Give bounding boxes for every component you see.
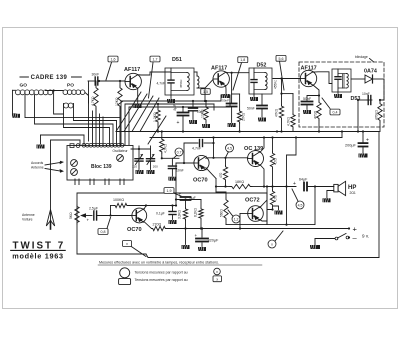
resistor 8,2K ohm bbox=[200, 200, 202, 209]
measure box 1,8 bbox=[238, 57, 248, 63]
bloc screw 1 bbox=[71, 160, 78, 167]
coupling coil bbox=[64, 103, 74, 108]
supply rail bbox=[150, 137, 342, 139]
measure box 1,7 bbox=[150, 56, 160, 62]
svg-text:4,7Ω: 4,7Ω bbox=[274, 158, 278, 165]
trimmer capacitor 200 bbox=[150, 146, 152, 158]
IF transformer D51 bbox=[165, 68, 194, 95]
cadre 139 label bbox=[20, 76, 28, 78]
coil PO bbox=[63, 90, 85, 95]
T7 collector diagonal bbox=[260, 187, 267, 208]
transistor T5 OC70 driver bbox=[194, 155, 209, 170]
wire supply to output node bbox=[287, 138, 297, 187]
svg-text:30nF: 30nF bbox=[92, 72, 100, 76]
wire driver base feed bbox=[175, 163, 177, 206]
IF transformer D52 bbox=[249, 68, 272, 94]
svg-text:1,2KΩ: 1,2KΩ bbox=[153, 112, 157, 122]
shield dashed box blindage bbox=[299, 62, 384, 127]
svg-text:modèle 1963: modèle 1963 bbox=[12, 251, 64, 260]
svg-text:12KΩ: 12KΩ bbox=[115, 97, 119, 106]
wire AGC to T2 base bbox=[204, 88, 206, 101]
legend circle symbol bbox=[120, 268, 130, 278]
capacitor 0,1uF IF decoupling bbox=[231, 73, 233, 103]
wire ground to bloc bbox=[41, 134, 85, 136]
svg-text:200μF: 200μF bbox=[345, 144, 357, 148]
svg-text:64μF: 64μF bbox=[299, 178, 308, 182]
svg-text:Tensions mesurées par rapport: Tensions mesurées par rapport au bbox=[135, 278, 188, 282]
svg-text:blindage: blindage bbox=[355, 55, 368, 59]
wire bundle diagonal 4 bbox=[140, 98, 159, 132]
svg-text:10KΩ: 10KΩ bbox=[201, 109, 205, 118]
wire driver emitter vertical bbox=[215, 179, 217, 193]
svg-text:Antenne: Antenne bbox=[22, 213, 35, 217]
wire 18K left bbox=[216, 186, 230, 188]
svg-text:TWIST 7: TWIST 7 bbox=[13, 240, 66, 251]
bus wire b bbox=[125, 104, 214, 145]
svg-text:4,7KΩ: 4,7KΩ bbox=[287, 116, 291, 126]
bloc screw 2 bbox=[71, 169, 78, 176]
svg-text:OC72: OC72 bbox=[245, 198, 260, 204]
ground below D53 bbox=[337, 92, 339, 94]
measure circle 1,2 bbox=[232, 215, 240, 223]
measure circle 4,5 output bbox=[296, 201, 304, 209]
T7 base wire bbox=[240, 213, 248, 215]
resistor 470 ohm emitter bbox=[318, 96, 320, 102]
capacitor 320uF bbox=[201, 229, 203, 238]
T7 emitter path bbox=[260, 210, 273, 222]
capacitor 50nF emitter bbox=[307, 96, 319, 101]
wire cap to resistor bbox=[232, 93, 240, 95]
svg-text:50nF: 50nF bbox=[222, 99, 229, 103]
T6 emitter down bbox=[260, 165, 264, 187]
car antenna arrow bbox=[46, 210, 54, 227]
measure circle x bbox=[268, 240, 276, 248]
switch bbox=[315, 238, 335, 240]
svg-text:+: + bbox=[195, 233, 198, 238]
ground output emitter bbox=[273, 206, 279, 211]
wire D52 to T3 base bbox=[273, 78, 300, 80]
T3 emitter node bbox=[313, 85, 319, 96]
T1 collector wire to D51 bbox=[138, 72, 171, 75]
wire cadre bus 1 bbox=[25, 95, 120, 145]
svg-text:320μF: 320μF bbox=[208, 239, 220, 243]
arrow to screw 2 bbox=[45, 169, 60, 172]
svg-text:Accords: Accords bbox=[31, 161, 44, 165]
svg-text:2,5μF: 2,5μF bbox=[89, 207, 98, 211]
resistor 470 ohm bias bbox=[225, 158, 227, 166]
resistor 560 ohm bbox=[224, 198, 228, 220]
svg-text:4,7KΩ: 4,7KΩ bbox=[91, 96, 95, 106]
battery minus wire bbox=[348, 236, 350, 238]
bloc bottom pins bbox=[74, 179, 76, 185]
svg-text:4,7Ω: 4,7Ω bbox=[274, 195, 278, 202]
svg-text:455Kc: 455Kc bbox=[274, 80, 278, 89]
svg-text:470: 470 bbox=[219, 172, 223, 178]
svg-text:455Kc: 455Kc bbox=[179, 79, 183, 88]
svg-text:4,5: 4,5 bbox=[298, 203, 303, 207]
wire collector to coupling bbox=[146, 205, 176, 207]
svg-text:+: + bbox=[293, 181, 296, 187]
svg-text:8,2KΩ: 8,2KΩ bbox=[194, 207, 198, 217]
wire bundle diagonal 2 bbox=[124, 94, 147, 132]
bus wire c bbox=[129, 95, 230, 145]
svg-text:3,3KΩ: 3,3KΩ bbox=[178, 209, 182, 219]
svg-text:x: x bbox=[216, 277, 218, 281]
ground below D51 bbox=[170, 95, 172, 99]
feedback capacitor 4,7nF bbox=[184, 143, 198, 163]
bloc top coil row bbox=[82, 143, 124, 147]
svg-text:Bloc 139: Bloc 139 bbox=[91, 164, 112, 170]
transistor T6 OC139 bbox=[248, 151, 264, 167]
wire right vertical to bottom bbox=[378, 132, 380, 258]
svg-text:1,8: 1,8 bbox=[240, 58, 245, 62]
wire D51 secondary to T2 base bbox=[197, 80, 213, 89]
T3 collector to D53 bbox=[313, 72, 332, 84]
svg-text:470Ω: 470Ω bbox=[314, 110, 318, 119]
svg-text:200: 200 bbox=[153, 165, 158, 169]
D51 secondary coil bbox=[197, 76, 199, 88]
svg-text:1,2: 1,2 bbox=[234, 217, 239, 221]
svg-text:D52: D52 bbox=[257, 63, 267, 69]
wire PO down to converter drop bbox=[85, 93, 89, 104]
svg-text:CADRE 139: CADRE 139 bbox=[31, 75, 68, 81]
ground near bloc bbox=[40, 135, 42, 145]
svg-text:4,7KΩ: 4,7KΩ bbox=[164, 143, 168, 153]
wire cadre bus 3 bbox=[74, 103, 117, 144]
svg-text:4,5: 4,5 bbox=[227, 146, 232, 150]
wire bundle diagonal 1 bbox=[116, 92, 141, 132]
svg-text:Oscillateur: Oscillateur bbox=[113, 149, 129, 153]
detector output wire bbox=[380, 79, 384, 100]
svg-text:50nF: 50nF bbox=[247, 107, 255, 111]
measure box 0,4 bbox=[322, 98, 330, 109]
transistor T2 AF117 first IF bbox=[213, 71, 229, 87]
measure circle 0,7 bbox=[175, 148, 183, 156]
resistor 18K ohm bbox=[230, 184, 252, 188]
wire collector to cap 64uF bbox=[267, 186, 296, 188]
transistor T4 OC70 preamp bbox=[132, 208, 147, 223]
bloc 139 box bbox=[67, 146, 133, 181]
svg-text:4,7nF: 4,7nF bbox=[192, 147, 202, 151]
AGC rail bbox=[116, 131, 379, 133]
svg-text:18KΩ: 18KΩ bbox=[235, 180, 244, 184]
resistor 4,7K ohm converter base bbox=[95, 81, 97, 86]
resistor 4,7K ohm osc bbox=[161, 132, 163, 139]
bus verticals converter to bloc bbox=[92, 111, 94, 145]
arrow to screw 1 bbox=[45, 163, 60, 166]
T5 emitter bbox=[206, 168, 216, 179]
svg-text:10nF: 10nF bbox=[176, 169, 184, 173]
wire base driver bbox=[176, 162, 194, 164]
bus stubs up bbox=[220, 95, 222, 101]
wire bloc to trimmers bbox=[131, 148, 151, 150]
car antenna wire bbox=[51, 140, 81, 229]
svg-text:4,7nF: 4,7nF bbox=[157, 82, 165, 86]
svg-text:0,7: 0,7 bbox=[177, 150, 182, 154]
audio amplifier board outline bbox=[77, 193, 267, 224]
measure box 5,6 bbox=[276, 55, 286, 61]
svg-text:5,6: 5,6 bbox=[279, 57, 284, 61]
resistor 27K ohm bbox=[239, 94, 241, 110]
resistor 3,3K ohm bbox=[183, 208, 187, 220]
svg-text:Mesures effectuées avec un vol: Mesures effectuées avec un voltmètre à l… bbox=[99, 261, 219, 265]
svg-text:+: + bbox=[177, 120, 180, 126]
bloc top terminal marks bbox=[70, 144, 74, 148]
ground below D52 bbox=[253, 94, 255, 97]
resistor 470K ohm detector bbox=[379, 100, 381, 102]
svg-text:PO: PO bbox=[67, 83, 74, 89]
svg-text:D51: D51 bbox=[172, 57, 182, 63]
svg-text:Tensions mesurées par rapport: Tensions mesurées par rapport au bbox=[135, 270, 188, 274]
svg-text:OC70: OC70 bbox=[127, 227, 142, 233]
ground below GO coil bbox=[12, 90, 14, 114]
svg-text:470KΩ: 470KΩ bbox=[375, 110, 379, 120]
T4 emitter diagonal bbox=[144, 221, 152, 228]
resistor 12K ohm bbox=[119, 81, 121, 86]
wire cadre bus 4 bbox=[64, 114, 110, 145]
svg-text:D53: D53 bbox=[351, 96, 361, 102]
resistor 4,7 ohm upper bbox=[272, 138, 274, 153]
boxed 1,9 bbox=[164, 188, 174, 194]
wire GO to PO bbox=[46, 90, 64, 92]
resistor 47K ohm bbox=[281, 79, 283, 106]
T2 collector wire to D52 bbox=[226, 71, 249, 74]
measure box x bbox=[123, 241, 132, 247]
svg-text:0,1μF: 0,1μF bbox=[156, 212, 165, 216]
resistor 1,2K ohm AGC bbox=[157, 104, 159, 109]
svg-text:Voiture: Voiture bbox=[22, 218, 33, 222]
svg-text:0A74: 0A74 bbox=[364, 69, 377, 75]
transistor T7 OC72 bbox=[248, 206, 264, 222]
bus wire a bbox=[121, 101, 221, 145]
wire cadre bus 2 bbox=[35, 95, 114, 145]
volume potentiometer 5K bbox=[75, 205, 79, 224]
T2 emitter to ground bbox=[225, 86, 227, 94]
measure box 0,8 bbox=[98, 229, 108, 235]
svg-text:Antenne: Antenne bbox=[31, 166, 44, 170]
transistor T1 AF117 converter bbox=[125, 73, 141, 89]
coil GO bbox=[16, 90, 53, 95]
T4 collector diagonal bbox=[144, 206, 146, 210]
svg-text:27KΩ: 27KΩ bbox=[241, 112, 245, 121]
svg-text:1,7: 1,7 bbox=[153, 58, 158, 62]
svg-text:1,6: 1,6 bbox=[111, 58, 116, 62]
trimmer capacitor 120 bbox=[138, 146, 140, 158]
capacitor 10nF with ground bbox=[192, 101, 194, 107]
resistor 4,7 ohm lower bbox=[270, 190, 274, 206]
svg-text:x: x bbox=[126, 242, 128, 246]
wire 18K right bbox=[252, 186, 267, 188]
wire rail to collector bbox=[213, 138, 215, 158]
speaker HP bbox=[334, 184, 338, 192]
svg-text:OC70: OC70 bbox=[193, 178, 208, 184]
supply rail minus bbox=[167, 228, 350, 230]
bottom long wire bbox=[146, 254, 379, 258]
speaker ground bbox=[327, 191, 334, 199]
svg-text:560Ω: 560Ω bbox=[220, 209, 224, 217]
svg-text:x: x bbox=[271, 242, 273, 246]
svg-text:+: + bbox=[87, 218, 90, 223]
ground of T1 emitter bbox=[137, 88, 139, 104]
wire detector node bbox=[357, 99, 359, 101]
resistor 10K ohm bbox=[205, 101, 207, 106]
svg-text:GO: GO bbox=[20, 83, 28, 89]
svg-text:1,5: 1,5 bbox=[203, 90, 208, 94]
measure circle 4,5 driver bbox=[226, 144, 234, 152]
oscillator screw bbox=[117, 155, 124, 162]
wire bundle diagonal 3 bbox=[132, 96, 153, 132]
svg-text:9 v.: 9 v. bbox=[362, 234, 369, 239]
resistor 100K ohm feedback bbox=[109, 214, 111, 216]
diode OA74 bbox=[351, 78, 365, 80]
chassis connection bbox=[314, 239, 316, 246]
svg-text:120: 120 bbox=[132, 165, 137, 169]
T6 collector to rail bbox=[260, 138, 264, 153]
svg-text:100KΩ: 100KΩ bbox=[113, 198, 124, 202]
svg-text:AF117: AF117 bbox=[124, 67, 140, 73]
svg-text:x: x bbox=[216, 270, 218, 274]
IF transformer D53 bbox=[332, 69, 351, 92]
svg-text:1,9: 1,9 bbox=[167, 189, 172, 193]
svg-text:0,4: 0,4 bbox=[333, 111, 338, 115]
svg-text:50nF: 50nF bbox=[303, 97, 312, 101]
speaker return wire 1 bbox=[286, 187, 288, 225]
svg-text:+: + bbox=[179, 192, 182, 197]
transistor T3 AF117 second IF bbox=[300, 70, 316, 86]
T5 collector wire to OC139 base bbox=[206, 157, 248, 160]
svg-text:AF117: AF117 bbox=[211, 66, 227, 72]
measure box 1,5 bbox=[201, 89, 211, 95]
legend box symbol bbox=[119, 279, 131, 285]
resistor 4,7K ohm if2 bbox=[282, 93, 294, 95]
wire bundle diagonal 5 bbox=[148, 116, 166, 144]
wire bias node bbox=[176, 199, 201, 201]
svg-text:5KΩ: 5KΩ bbox=[69, 212, 73, 219]
svg-text:47KΩ: 47KΩ bbox=[275, 108, 279, 117]
measure box 1,6 bbox=[108, 56, 118, 62]
svg-text:0,8: 0,8 bbox=[101, 230, 106, 234]
speaker return wire 2 bbox=[226, 187, 315, 225]
svg-text:2Ω1: 2Ω1 bbox=[350, 191, 356, 195]
